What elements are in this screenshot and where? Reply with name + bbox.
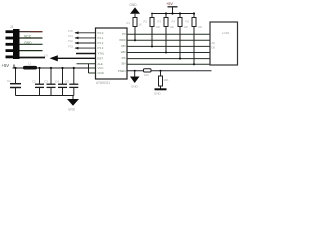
IC U1 pin left GND2 xyxy=(89,72,96,74)
wire R1 down xyxy=(134,27,136,41)
svg-text:A0: A0 xyxy=(212,41,216,45)
IC U1 pin left GND1 xyxy=(89,67,96,69)
capacitor C3 column xyxy=(50,68,52,84)
svg-text:P30: P30 xyxy=(68,29,73,33)
connector J1 pin 1 xyxy=(6,30,14,33)
power symbol xyxy=(168,6,178,8)
IC U1 body xyxy=(96,28,128,79)
wire RST arrow line xyxy=(56,57,96,59)
svg-text:1K: 1K xyxy=(139,23,142,27)
bus wire 2 xyxy=(127,39,210,41)
IC U1 pin stub left 4 xyxy=(75,47,96,49)
wire pin2 xyxy=(20,37,43,39)
resistor R7 vertical xyxy=(160,71,162,76)
svg-text:GND: GND xyxy=(131,85,139,89)
wire EA xyxy=(127,70,212,72)
svg-text:103: 103 xyxy=(144,73,149,77)
IC U1 pin stub left 3 xyxy=(75,42,96,44)
svg-text:GND: GND xyxy=(98,71,104,75)
power rail wire xyxy=(13,67,89,69)
junction dot EA xyxy=(159,70,161,72)
svg-text:R2: R2 xyxy=(144,20,148,24)
svg-text:10K: 10K xyxy=(198,25,203,29)
svg-text:RS: RS xyxy=(122,56,126,60)
IC U1 pin stub left 1 xyxy=(75,32,96,34)
svg-text:P3.2: P3.2 xyxy=(98,41,104,45)
svg-text:VCC: VCC xyxy=(24,35,32,39)
svg-text:C5: C5 xyxy=(65,80,69,84)
svg-text:R3: R3 xyxy=(158,20,162,24)
capacitor C5 column xyxy=(73,68,75,84)
arrow head RST xyxy=(50,55,58,61)
svg-text:WR0: WR0 xyxy=(119,38,126,42)
ground rail bottom xyxy=(16,95,74,97)
svg-text:PSEN: PSEN xyxy=(118,69,126,73)
IC U1 pin left VCC xyxy=(77,63,96,65)
svg-text:EN: EN xyxy=(122,62,126,66)
svg-text:10K: 10K xyxy=(170,25,175,29)
svg-text:C2: C2 xyxy=(32,80,36,84)
capacitor C2 column xyxy=(39,68,41,84)
IC U1 pin stub left 5 xyxy=(76,53,96,55)
svg-text:P33: P33 xyxy=(68,44,73,48)
IC U1 inner pin names left column xyxy=(98,31,105,75)
ground triangle top xyxy=(130,7,140,13)
wire join bottom-left pins xyxy=(88,64,90,73)
svg-text:P31: P31 xyxy=(68,34,73,38)
svg-text:RD: RD xyxy=(121,44,125,48)
wire pin1 xyxy=(20,31,43,33)
wire pin3 xyxy=(20,43,43,45)
svg-text:GND: GND xyxy=(24,41,32,45)
svg-text:P0: P0 xyxy=(122,32,126,36)
ground under EA wire xyxy=(134,70,136,72)
svg-text:GND: GND xyxy=(154,92,162,96)
bus wire 6 xyxy=(127,63,210,65)
svg-text:+5V: +5V xyxy=(166,2,173,6)
svg-text:10K: 10K xyxy=(184,25,189,29)
svg-text:WR: WR xyxy=(121,50,126,54)
svg-text:+5V: +5V xyxy=(2,63,10,68)
resistor network rail xyxy=(152,13,195,15)
connector J1 pin 5 xyxy=(6,56,14,59)
power rail tick xyxy=(13,65,15,69)
svg-text:RST: RST xyxy=(98,56,104,60)
svg-text:P3.1: P3.1 xyxy=(98,36,104,40)
connector J1 pin 2 xyxy=(6,37,14,40)
svg-text:LCD1: LCD1 xyxy=(222,31,230,35)
connector J1 body xyxy=(13,29,20,59)
bus wire 5 xyxy=(127,58,210,60)
svg-text:C3: C3 xyxy=(44,80,48,84)
svg-text:10K: 10K xyxy=(164,78,169,82)
resistor R2 xyxy=(151,14,153,18)
module U2 body xyxy=(210,22,238,65)
svg-text:10K: 10K xyxy=(156,25,161,29)
bus wire 1 xyxy=(127,33,210,35)
resistor R1 xyxy=(133,18,137,27)
svg-text:J1: J1 xyxy=(10,25,14,29)
ground symbol bottom-left xyxy=(67,99,79,106)
svg-text:R4: R4 xyxy=(172,20,176,24)
svg-text:XTAL: XTAL xyxy=(98,52,105,56)
svg-text:R1: R1 xyxy=(127,21,131,25)
resistor R3 xyxy=(165,14,167,18)
svg-text:GND: GND xyxy=(68,108,76,112)
bus wire 3 xyxy=(127,45,210,47)
resistor R5 xyxy=(193,14,195,18)
IC U1 pin stub left 2 xyxy=(75,37,96,39)
svg-text:VCC: VCC xyxy=(98,66,104,70)
svg-text:C1: C1 xyxy=(7,79,11,83)
resistor R4 xyxy=(179,14,181,18)
IC U1 inner pin names right column xyxy=(118,32,126,73)
svg-text:L1: L1 xyxy=(28,62,32,66)
svg-text:R5: R5 xyxy=(186,20,190,24)
svg-text:P3.0: P3.0 xyxy=(98,31,104,35)
ground stub xyxy=(72,96,74,100)
wire pin5 xyxy=(20,57,46,59)
connector J1 pin 4 xyxy=(6,49,14,52)
svg-text:P32: P32 xyxy=(68,39,73,43)
svg-text:C4: C4 xyxy=(55,80,59,84)
ground bar xyxy=(155,88,167,90)
svg-text:AT89C51: AT89C51 xyxy=(96,81,110,85)
capacitor C4 column xyxy=(62,68,64,84)
wire pin4 xyxy=(20,50,43,52)
capacitor C1 column (electrolytic) xyxy=(15,68,17,84)
svg-text:C6: C6 xyxy=(44,54,48,58)
svg-text:P3.3: P3.3 xyxy=(98,46,104,50)
connector J1 pin 3 xyxy=(6,43,14,46)
svg-text:GND: GND xyxy=(130,3,138,7)
svg-text:D0: D0 xyxy=(212,46,216,50)
resistor R6 horizontal xyxy=(144,69,152,72)
bus wire 4 xyxy=(127,52,210,54)
